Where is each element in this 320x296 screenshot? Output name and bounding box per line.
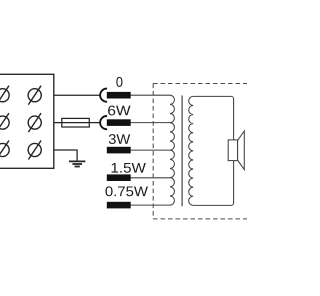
fuse F1 — [62, 118, 90, 127]
terminal screw row3 right — [28, 141, 41, 160]
tap terminal 1.5W — [107, 174, 131, 181]
ground symbol — [69, 161, 85, 166]
label 3W — [109, 134, 130, 144]
speaker LS1 — [228, 131, 244, 170]
terminal screw row1 left — [0, 86, 9, 105]
tap terminal 0 — [107, 92, 131, 99]
terminal screw row2 right — [28, 113, 41, 132]
wire 1.5W to primary — [131, 177, 171, 179]
wire 3W to primary — [131, 149, 171, 151]
tap terminal 0.75W — [107, 202, 131, 209]
transformer core — [181, 96, 183, 207]
label 0.75W — [105, 186, 147, 196]
wire box to fuse to 6W socket — [54, 122, 101, 124]
terminal screw row1 right — [28, 86, 41, 105]
terminal box TB1 — [0, 74, 54, 168]
terminal screw row2 left — [0, 113, 9, 132]
wire box to ground — [54, 150, 77, 161]
wire 6W to primary — [131, 122, 171, 124]
terminal screw row3 left — [0, 141, 9, 160]
dashed enclosure — [153, 84, 248, 220]
transformer primary winding — [170, 95, 174, 205]
label 6W — [108, 106, 130, 116]
label 1.5W — [112, 163, 146, 173]
wire box to 0 socket — [54, 94, 101, 96]
socket arc 0 — [100, 89, 107, 102]
tap terminal 3W — [107, 147, 131, 154]
wire 0.75W to primary — [131, 204, 171, 206]
label 0 — [116, 77, 122, 87]
socket arc 6W — [100, 116, 107, 129]
transformer secondary winding — [189, 96, 194, 205]
secondary loop wires — [193, 96, 233, 205]
wire 0 to primary — [131, 94, 171, 96]
tap terminal 6W — [107, 119, 131, 126]
